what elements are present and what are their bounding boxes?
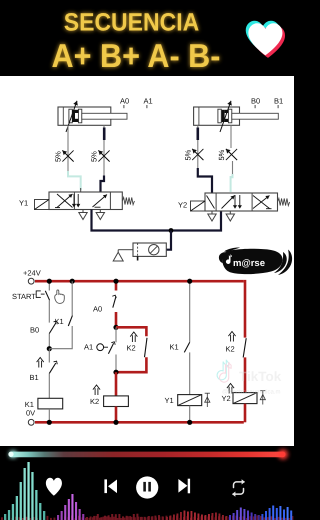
svg-text:A+ B+ A- B-: A+ B+ A- B- [52,38,221,75]
svg-text:K1: K1 [55,317,64,326]
svg-text:A0: A0 [120,97,129,106]
svg-text:5%: 5% [90,151,99,162]
svg-text:5%: 5% [54,151,63,162]
svg-text:K2: K2 [127,344,136,353]
svg-text:A1: A1 [84,343,93,352]
svg-text:START: START [12,292,36,301]
svg-text:Y1: Y1 [19,199,28,208]
svg-text:B0: B0 [30,326,39,335]
svg-text:K1: K1 [170,343,179,352]
svg-text:K2: K2 [226,345,235,354]
svg-text:m@rse: m@rse [233,258,265,269]
svg-text:A0: A0 [93,305,102,314]
svg-text:Y1: Y1 [165,396,174,405]
svg-text:A1: A1 [144,97,153,106]
svg-text:5%: 5% [217,149,226,160]
svg-text:+24V: +24V [23,269,41,278]
svg-text:SECUENCIA: SECUENCIA [64,9,199,37]
svg-text:K1: K1 [25,400,34,409]
svg-text:K2: K2 [90,397,99,406]
svg-text:B1: B1 [30,373,39,382]
svg-text:@electroneumatica.m: @electroneumatica.m [222,389,280,396]
svg-text:0V: 0V [26,409,35,418]
svg-text:B1: B1 [274,97,283,106]
svg-text:5%: 5% [183,149,192,160]
svg-text:Y2: Y2 [178,201,187,210]
svg-text:TikTok: TikTok [239,369,282,384]
svg-text:B0: B0 [251,97,260,106]
